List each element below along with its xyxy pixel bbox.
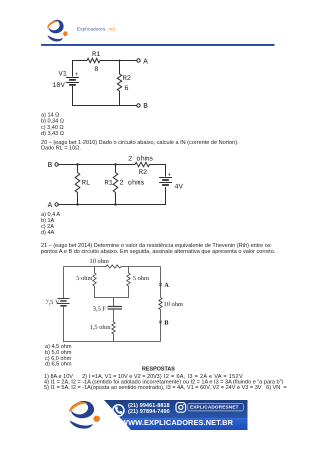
svg-text:B: B	[48, 161, 53, 170]
svg-text:7,5 V: 7,5 V	[46, 298, 60, 305]
svg-text:A: A	[143, 57, 148, 66]
svg-text:A: A	[164, 282, 169, 289]
svg-text:2 ohms: 2 ohms	[128, 155, 153, 163]
svg-text:A: A	[48, 201, 53, 210]
svg-text:10 ohm: 10 ohm	[164, 301, 183, 308]
svg-text:B: B	[164, 319, 169, 326]
svg-text:5 ohm: 5 ohm	[76, 275, 92, 282]
svg-text:R2: R2	[123, 75, 131, 83]
svg-text:+: +	[167, 172, 171, 179]
svg-text:B: B	[143, 102, 148, 111]
svg-text:R1: R1	[105, 179, 113, 187]
svg-text:+: +	[75, 71, 79, 78]
svg-text:R2: R2	[139, 169, 147, 177]
svg-text:3,5 F: 3,5 F	[93, 305, 106, 312]
svg-text:4V: 4V	[174, 183, 183, 191]
svg-text:V1: V1	[59, 70, 67, 78]
svg-text:10V: 10V	[52, 81, 65, 89]
svg-text:RL: RL	[82, 179, 90, 187]
svg-text:6: 6	[124, 84, 128, 92]
svg-text:5 ohm: 5 ohm	[133, 275, 149, 282]
svg-text:2 ohms: 2 ohms	[119, 179, 144, 187]
svg-text:1,5 ohm: 1,5 ohm	[90, 323, 111, 330]
svg-text:10 ohm: 10 ohm	[90, 258, 109, 265]
svg-text:R1: R1	[92, 51, 100, 59]
svg-text:8: 8	[94, 65, 98, 73]
